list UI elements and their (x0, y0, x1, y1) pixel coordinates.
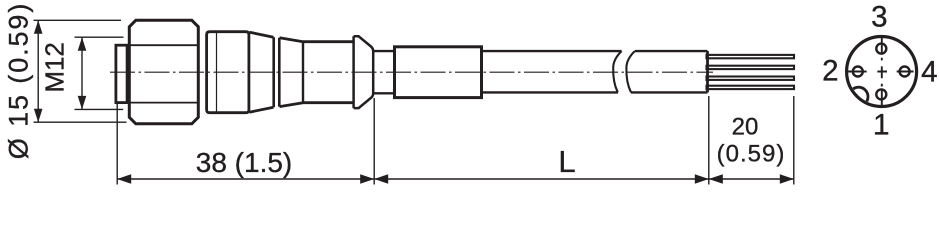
dim line 38 (117, 178, 374, 180)
dim line 20 (709, 178, 794, 180)
nut thread line top (127, 44, 198, 46)
svg-text:M12: M12 (40, 42, 70, 93)
cable break left curve (613, 51, 621, 92)
dimension thin lines (34, 20, 794, 184)
ext line M12 bottom (75, 108, 124, 110)
collar front line (352, 36, 355, 108)
ext line A front (116, 104, 118, 185)
connector body straight section (207, 32, 249, 113)
wire 4 (707, 86, 795, 89)
arrowheads (34, 20, 794, 184)
boot top edge (303, 40, 354, 43)
pin 1 bottom (876, 89, 886, 99)
connector face outline (847, 37, 917, 107)
ring groove line 1 (272, 37, 275, 107)
dim line dia15 (37, 20, 39, 122)
cable jacket right segment top (635, 50, 708, 52)
body taper upper 1 (249, 32, 273, 37)
front socket plate (116, 45, 127, 102)
body taper lower 1 (249, 107, 273, 112)
step to ferrule top (373, 50, 395, 52)
arrow 38 left (117, 174, 131, 184)
cable ferrule (395, 47, 482, 98)
svg-text:38 (1.5): 38 (1.5) (196, 147, 293, 178)
arrow dia15 up (34, 20, 43, 34)
arrow M12 up (78, 37, 87, 51)
svg-text:L: L (558, 144, 575, 179)
ring groove line 2 (278, 38, 281, 107)
label pin 1 foot serif (875, 132, 888, 134)
arrow dia15 down (34, 109, 43, 123)
cable jacket left segment bottom (482, 91, 619, 93)
svg-text:4: 4 (921, 56, 937, 89)
collar body (354, 36, 374, 108)
svg-text:(0.59): (0.59) (717, 141, 786, 168)
cable jacket left segment top (482, 50, 622, 52)
arrow L right (695, 174, 709, 184)
face centerline horizontal (848, 71, 914, 73)
step to ferrule bottom (373, 92, 395, 94)
arrow L left (374, 174, 388, 184)
pin face view (847, 37, 917, 108)
arrow 20 left (709, 174, 723, 184)
ext line B collar (373, 98, 375, 185)
ext line C cable end (708, 96, 710, 185)
body taper lower 2 (280, 103, 304, 107)
wire 1 (707, 55, 795, 58)
nut thread line bottom (127, 102, 198, 104)
body step line (216, 32, 218, 113)
ext line dia15 bottom (34, 121, 127, 123)
ext line D wire end (793, 96, 795, 185)
boot left edge (302, 42, 304, 103)
boot bottom edge (303, 101, 354, 104)
body taper upper 2 (280, 38, 304, 42)
wire 3 (707, 77, 795, 80)
cable end face (706, 51, 709, 92)
cable jacket right segment bottom (631, 91, 708, 93)
svg-text:Ø 15 (0.59): Ø 15 (0.59) (4, 2, 34, 159)
svg-text:20: 20 (732, 114, 759, 141)
cable break right curve (626, 51, 634, 92)
arrow M12 down (78, 96, 87, 110)
pin 4 right (900, 67, 910, 77)
dim line L (374, 178, 709, 180)
centerline main (110, 71, 713, 73)
dim line M12 (81, 37, 83, 109)
ext line dia15 top (34, 19, 122, 21)
pin 2 left (853, 67, 863, 77)
arrow 20 right (780, 174, 794, 184)
keying notch (849, 87, 868, 106)
arrow 38 right (360, 174, 374, 184)
pin 3 top (876, 44, 886, 54)
wire 2 (707, 66, 795, 69)
svg-text:1: 1 (873, 109, 889, 142)
svg-text:3: 3 (871, 0, 887, 33)
face centerline vertical (881, 37, 883, 108)
svg-text:2: 2 (822, 55, 838, 88)
coupling nut M12 (129, 20, 198, 124)
ext line M12 top (75, 36, 124, 38)
